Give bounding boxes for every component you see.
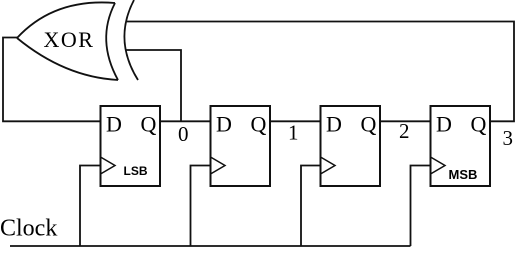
svg-text:Q: Q: [471, 112, 487, 137]
wire: clock riser to FF4: [411, 166, 431, 247]
node 0 label: [178, 122, 189, 146]
d flip-flop FF2: [211, 106, 271, 186]
d flip-flop FF4 (MSB): [431, 106, 491, 186]
svg-text:Clock: Clock: [0, 216, 57, 242]
node 3 label: [503, 126, 514, 150]
svg-text:Q: Q: [141, 112, 157, 137]
svg-text:XOR: XOR: [44, 27, 95, 52]
wire: clock riser to FF1: [80, 166, 101, 247]
clock net: bottom distribution line: [10, 245, 411, 247]
wire: xor input 2 tap from node 0: [126, 50, 182, 121]
label Clock: [0, 216, 57, 242]
label XOR: [44, 27, 95, 52]
wire: clock riser to FF2: [191, 166, 211, 247]
svg-text:MSB: MSB: [449, 167, 478, 182]
wire: Q2 to D of FF4: [380, 120, 431, 122]
svg-text:1: 1: [288, 121, 299, 145]
wire: Q1 to D of FF3: [270, 120, 321, 122]
node 1 label: [288, 121, 299, 145]
svg-text:Q: Q: [361, 112, 377, 137]
d flip-flop FF1 (LSB): [101, 106, 161, 186]
svg-text:Q: Q: [251, 112, 267, 137]
svg-text:3: 3: [503, 126, 514, 150]
svg-text:0: 0: [178, 122, 189, 146]
svg-text:D: D: [216, 112, 232, 137]
node 2 label: [399, 119, 410, 143]
svg-text:D: D: [326, 112, 342, 137]
wire: xor output to D input of FF1: [3, 38, 101, 122]
wire: top feedback from Q3 to xor input 1: [126, 22, 514, 122]
d flip-flop FF3: [321, 106, 381, 186]
svg-text:D: D: [436, 112, 452, 137]
svg-text:D: D: [106, 112, 122, 137]
svg-text:LSB: LSB: [124, 164, 148, 178]
xor gate U1: [17, 0, 138, 80]
svg-text:2: 2: [399, 119, 410, 143]
wire: Q0 to D of FF2: [160, 120, 211, 122]
wire: clock riser to FF3: [301, 166, 321, 247]
